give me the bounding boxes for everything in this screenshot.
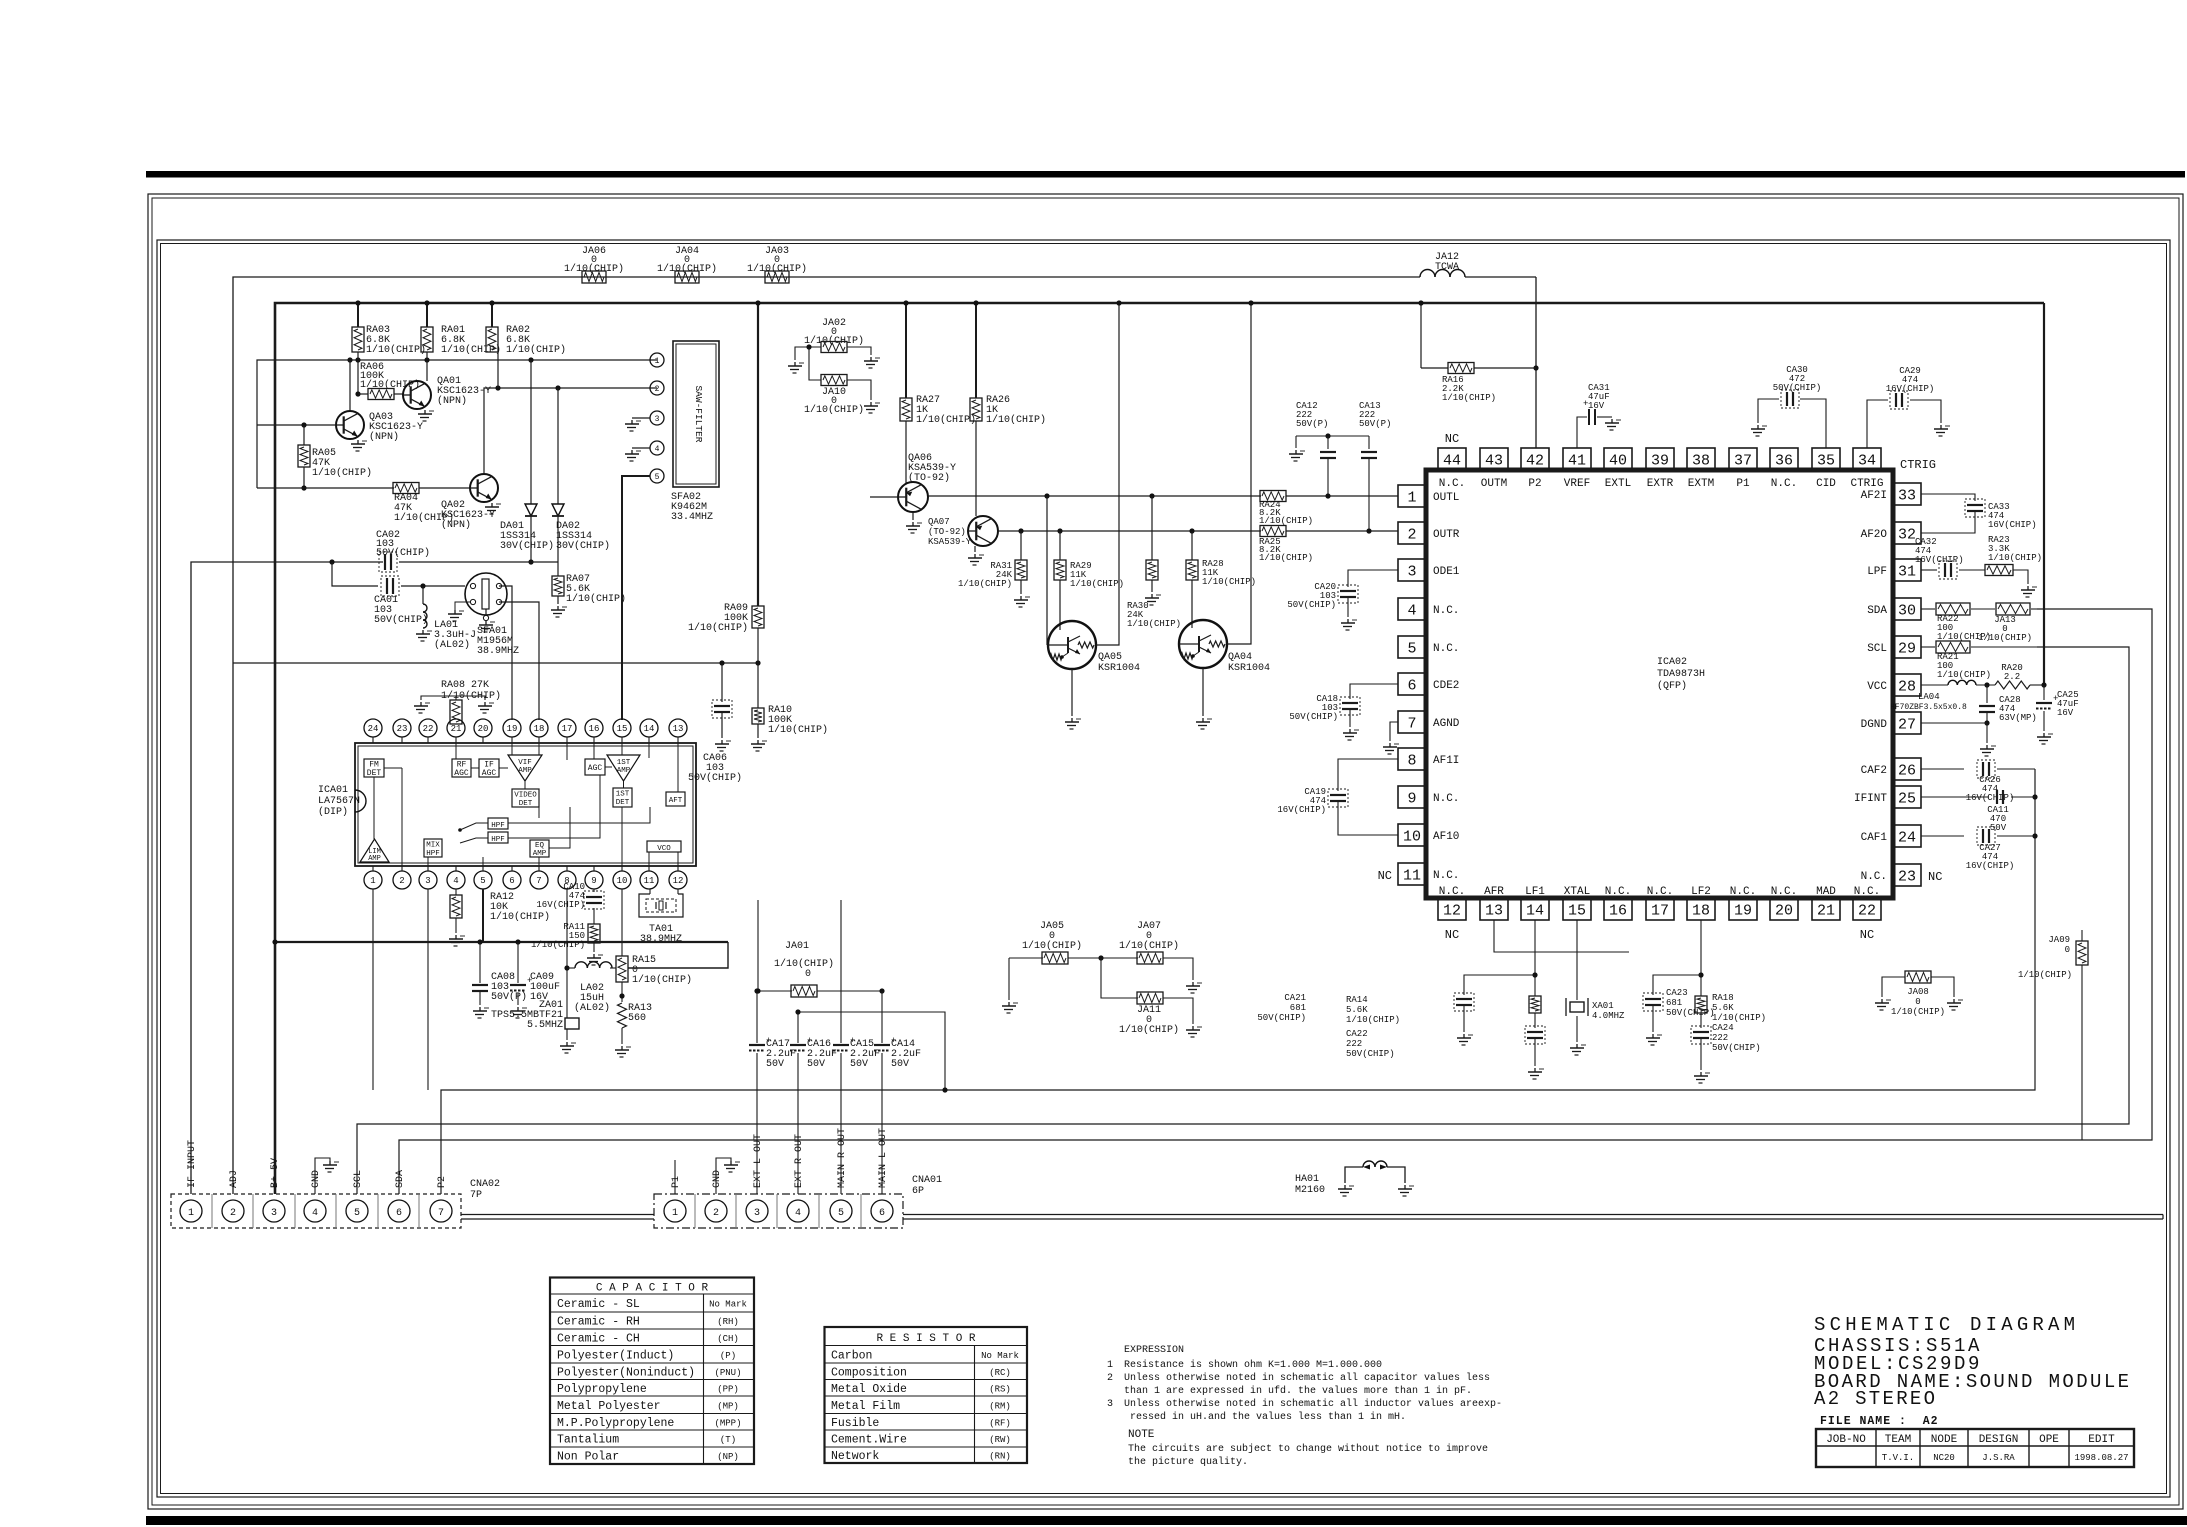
wire SFA01 to pin18 bbox=[499, 602, 539, 720]
page top rule bar bbox=[146, 171, 2185, 178]
svg-text:3: 3 bbox=[425, 876, 430, 886]
wire ICA01 pin5 to B+ return bbox=[482, 889, 484, 942]
svg-text:FILE NAME : A2: FILE NAME : A2 bbox=[1820, 1415, 1939, 1428]
svg-text:50V: 50V bbox=[766, 1059, 784, 1070]
ICA02 pin 24 CAF1 bbox=[1893, 825, 1921, 847]
svg-text:Metal Polyester: Metal Polyester bbox=[557, 1400, 661, 1413]
svg-text:1/10(CHIP): 1/10(CHIP) bbox=[506, 344, 566, 356]
svg-text:4: 4 bbox=[453, 876, 458, 886]
svg-text:the picture quality.: the picture quality. bbox=[1128, 1456, 1248, 1468]
ICA02 pin 3 ODE1 bbox=[1398, 559, 1426, 581]
wire SDA run bbox=[399, 609, 2152, 1194]
svg-text:R E S I S T O R: R E S I S T O R bbox=[876, 1333, 975, 1345]
svg-text:50V: 50V bbox=[1990, 823, 2007, 833]
resistor RA24 bbox=[1260, 491, 1286, 502]
svg-text:KSR1004: KSR1004 bbox=[1228, 663, 1270, 674]
svg-text:5: 5 bbox=[838, 1208, 844, 1219]
svg-text:EXPRESSION: EXPRESSION bbox=[1124, 1345, 1184, 1356]
ICA02 pin 13 AFR bbox=[1480, 898, 1508, 920]
ICA02 pin 34 CTRIG bbox=[1853, 448, 1881, 470]
capacitor CA15 bbox=[840, 900, 842, 1043]
ground QA01 emitter bbox=[424, 410, 426, 414]
svg-text:VIDEO: VIDEO bbox=[514, 792, 537, 800]
svg-text:681: 681 bbox=[1290, 1003, 1306, 1013]
svg-text:16V(CHIP): 16V(CHIP) bbox=[1886, 384, 1935, 394]
svg-text:No Mark: No Mark bbox=[981, 1351, 1019, 1361]
wire SFA01 to pin19 bbox=[499, 586, 512, 720]
svg-text:EDIT: EDIT bbox=[2088, 1434, 2115, 1446]
svg-text:29: 29 bbox=[1898, 640, 1916, 657]
svg-text:JA08: JA08 bbox=[1907, 987, 1929, 997]
svg-text:SCL: SCL bbox=[353, 1170, 364, 1188]
svg-text:AMP: AMP bbox=[518, 767, 532, 775]
svg-text:10: 10 bbox=[1403, 828, 1421, 845]
svg-text:LA7567N: LA7567N bbox=[318, 796, 360, 807]
wire B+ bus y=303 bbox=[275, 303, 2044, 1194]
wire inter-connector pair bbox=[461, 1214, 654, 1216]
svg-text:ressed in uH.and the values le: ressed in uH.and the values less than 1 … bbox=[1130, 1411, 1406, 1423]
svg-text:(NPN): (NPN) bbox=[441, 519, 471, 531]
svg-text:CTRIG: CTRIG bbox=[1900, 458, 1936, 472]
svg-text:1/10(CHIP): 1/10(CHIP) bbox=[1070, 579, 1124, 589]
svg-text:(PNU): (PNU) bbox=[714, 1368, 741, 1378]
ICA02 pin 21 MAD bbox=[1812, 898, 1840, 920]
svg-text:50V(CHIP): 50V(CHIP) bbox=[1773, 383, 1822, 393]
svg-text:JA09: JA09 bbox=[2048, 935, 2070, 945]
svg-text:NC: NC bbox=[1378, 869, 1392, 883]
svg-text:6: 6 bbox=[509, 876, 514, 886]
transistor QA01 bbox=[426, 352, 428, 381]
svg-text:1/10(CHIP): 1/10(CHIP) bbox=[747, 263, 807, 275]
wire CA16 feed bbox=[798, 1012, 945, 1090]
svg-text:5: 5 bbox=[1407, 640, 1416, 657]
connector CNA02 7P bbox=[171, 1194, 461, 1228]
svg-text:Composition: Composition bbox=[831, 1366, 907, 1379]
svg-text:1/10(CHIP): 1/10(CHIP) bbox=[1442, 393, 1496, 403]
svg-text:Network: Network bbox=[831, 1450, 879, 1463]
svg-text:4: 4 bbox=[795, 1208, 801, 1219]
svg-text:50V(CHIP): 50V(CHIP) bbox=[1287, 600, 1336, 610]
IC ICA01 LA7567N body bbox=[355, 743, 696, 866]
ground QA02 emitter bbox=[491, 503, 493, 507]
svg-text:33.4MHZ: 33.4MHZ bbox=[671, 512, 713, 523]
svg-text:AGC: AGC bbox=[454, 769, 469, 778]
ICA01 pin 20 bbox=[474, 719, 492, 737]
svg-text:3: 3 bbox=[1107, 1399, 1113, 1410]
svg-text:HPF: HPF bbox=[491, 836, 505, 844]
svg-text:CDE2: CDE2 bbox=[1433, 680, 1459, 692]
svg-text:TEAM: TEAM bbox=[1885, 1434, 1911, 1446]
wire top net y=277 bbox=[233, 277, 1420, 663]
svg-text:27: 27 bbox=[1898, 716, 1916, 733]
svg-text:Polyester(Induct): Polyester(Induct) bbox=[557, 1349, 674, 1362]
resistor RA27 bbox=[905, 303, 907, 398]
jumper JA03 bbox=[765, 271, 789, 283]
ICA02 pin 19 N.C. bbox=[1729, 898, 1757, 920]
ICA02 pin 17 N.C. bbox=[1646, 898, 1674, 920]
svg-text:LPF: LPF bbox=[1867, 566, 1887, 578]
ICA02 pin 16 N.C. bbox=[1604, 898, 1632, 920]
svg-text:AFR: AFR bbox=[1484, 886, 1504, 898]
svg-text:5: 5 bbox=[480, 876, 485, 886]
svg-text:DESIGN: DESIGN bbox=[1979, 1434, 2019, 1446]
transistor QA07 bbox=[975, 421, 977, 516]
svg-text:Metal Oxide: Metal Oxide bbox=[831, 1383, 907, 1396]
CNA01 pin 1 P1 bbox=[664, 1200, 686, 1222]
ICA01 pin 9 bbox=[585, 871, 603, 889]
capacitor CA19 pins 8-10 bbox=[1338, 759, 1398, 791]
svg-text:M2160: M2160 bbox=[1295, 1185, 1325, 1196]
svg-text:50V(CHIP): 50V(CHIP) bbox=[1666, 1008, 1715, 1018]
svg-text:38: 38 bbox=[1692, 452, 1710, 469]
svg-text:MAIN L OUT: MAIN L OUT bbox=[878, 1128, 889, 1188]
svg-text:6: 6 bbox=[396, 1208, 402, 1219]
svg-text:AGC: AGC bbox=[482, 769, 497, 778]
svg-text:50V(CHIP): 50V(CHIP) bbox=[1257, 1013, 1306, 1023]
svg-text:N.C.: N.C. bbox=[1861, 871, 1887, 883]
svg-text:2.2: 2.2 bbox=[2004, 672, 2020, 682]
capacitor CA29 bbox=[1867, 400, 1888, 448]
svg-text:NODE: NODE bbox=[1931, 1434, 1958, 1446]
svg-text:P1: P1 bbox=[671, 1176, 682, 1188]
svg-text:N.C.: N.C. bbox=[1433, 870, 1459, 882]
ICA02 pin 31 LPF bbox=[1893, 559, 1921, 581]
capacitor CA08 bbox=[479, 942, 481, 983]
wire y=663 to RA09/RA10 node bbox=[233, 662, 758, 664]
wire IF input bbox=[191, 562, 383, 1194]
svg-text:AF10: AF10 bbox=[1433, 831, 1459, 843]
svg-text:CTRIG: CTRIG bbox=[1850, 478, 1883, 490]
capacitor CA21 bbox=[1464, 975, 1535, 995]
svg-text:50V(P): 50V(P) bbox=[1359, 419, 1391, 429]
CNA01 pin 3 EXT L OUT bbox=[746, 1200, 768, 1222]
ICA01 pin 16 bbox=[585, 719, 603, 737]
CNA02 pin 4 GND bbox=[304, 1200, 326, 1222]
svg-text:21: 21 bbox=[1817, 902, 1835, 919]
capacitor CA23 bbox=[1653, 975, 1701, 995]
svg-text:30V(CHIP): 30V(CHIP) bbox=[500, 540, 554, 552]
svg-text:Fusible: Fusible bbox=[831, 1417, 879, 1430]
wire RA15 to B+ return corner bbox=[628, 942, 728, 968]
svg-text:1: 1 bbox=[655, 357, 660, 366]
svg-text:39: 39 bbox=[1651, 452, 1669, 469]
svg-text:VIF: VIF bbox=[518, 759, 532, 767]
capacitor CA30 bbox=[1800, 399, 1826, 448]
transistor QA04 KSR1004 bbox=[1179, 620, 1227, 668]
ICA02 pin 42 P2 bbox=[1521, 448, 1549, 470]
svg-text:13: 13 bbox=[673, 724, 684, 734]
svg-text:7: 7 bbox=[536, 876, 541, 886]
jumper JA04 bbox=[675, 271, 699, 283]
capacitor CA11 (IFINT) bbox=[1921, 796, 1989, 798]
svg-text:1/10(CHIP): 1/10(CHIP) bbox=[1978, 633, 2032, 643]
svg-text:2: 2 bbox=[713, 1208, 719, 1219]
svg-text:36: 36 bbox=[1775, 452, 1793, 469]
svg-text:AMP: AMP bbox=[368, 855, 381, 863]
connector CNA01 6P bbox=[654, 1194, 903, 1228]
svg-text:42: 42 bbox=[1526, 452, 1544, 469]
ICA01 pin 3 bbox=[419, 871, 437, 889]
svg-text:(NP): (NP) bbox=[717, 1452, 739, 1462]
capacitor CA16 bbox=[797, 1012, 799, 1043]
capacitor CA10 bbox=[593, 889, 595, 892]
svg-text:560: 560 bbox=[628, 1013, 646, 1024]
wire ICA01 pin1 drop bbox=[372, 889, 374, 1090]
resistor RA09 bbox=[757, 303, 759, 606]
ICA01 internal blocks bbox=[364, 759, 384, 777]
svg-text:(MP): (MP) bbox=[717, 1401, 739, 1411]
capacitor CA28 bbox=[1986, 685, 1988, 703]
capacitor CA20 bbox=[1348, 570, 1398, 587]
capacitor CA18 bbox=[1350, 684, 1398, 699]
ICA01 internal wiring bbox=[373, 777, 375, 839]
svg-text:P2: P2 bbox=[437, 1176, 448, 1188]
resistor RA01 bbox=[426, 303, 428, 327]
svg-text:T.V.I.: T.V.I. bbox=[1882, 1453, 1914, 1463]
svg-text:1/10(CHIP): 1/10(CHIP) bbox=[1202, 577, 1256, 587]
ICA02 pin 28 VCC bbox=[1893, 674, 1921, 696]
svg-text:1/10(CHIP): 1/10(CHIP) bbox=[564, 263, 624, 275]
CNA02 pin 7 P2 bbox=[430, 1200, 452, 1222]
svg-text:N.C.: N.C. bbox=[1854, 886, 1880, 898]
wire QA03 base bbox=[257, 424, 336, 426]
svg-text:4.0MHZ: 4.0MHZ bbox=[1592, 1011, 1625, 1021]
svg-text:23: 23 bbox=[397, 724, 408, 734]
svg-text:(RW): (RW) bbox=[989, 1435, 1011, 1445]
svg-text:No Mark: No Mark bbox=[709, 1300, 747, 1310]
svg-text:N.C.: N.C. bbox=[1439, 478, 1465, 490]
svg-text:10: 10 bbox=[617, 876, 628, 886]
resistor RA13 bbox=[618, 1003, 627, 1028]
svg-text:20: 20 bbox=[478, 724, 489, 734]
svg-text:23: 23 bbox=[1898, 868, 1916, 885]
wire DGND pin27 bbox=[1921, 723, 1987, 743]
resistor RA29 bbox=[1059, 531, 1061, 560]
wire base feed y=488 bbox=[257, 487, 394, 489]
svg-text:1: 1 bbox=[672, 1208, 678, 1219]
svg-text:24: 24 bbox=[1898, 829, 1916, 846]
svg-text:5.6K: 5.6K bbox=[1712, 1003, 1734, 1013]
svg-text:AF2O: AF2O bbox=[1861, 529, 1888, 541]
svg-text:4: 4 bbox=[655, 445, 660, 454]
svg-text:22: 22 bbox=[423, 724, 434, 734]
ICA02 pin 43 OUTM bbox=[1480, 448, 1508, 470]
svg-text:50V: 50V bbox=[891, 1059, 909, 1070]
svg-text:EXT L OUT: EXT L OUT bbox=[753, 1134, 764, 1188]
svg-text:AGC: AGC bbox=[588, 764, 603, 773]
svg-text:(RH): (RH) bbox=[717, 1317, 739, 1327]
svg-text:16V(CHIP): 16V(CHIP) bbox=[1988, 520, 2037, 530]
svg-text:38.9MHZ: 38.9MHZ bbox=[477, 646, 519, 657]
svg-text:NC: NC bbox=[1445, 928, 1459, 942]
svg-text:GND: GND bbox=[712, 1170, 723, 1188]
svg-text:CA24: CA24 bbox=[1712, 1023, 1734, 1033]
svg-text:(RN): (RN) bbox=[989, 1452, 1011, 1462]
ICA02 pin 26 CAF2 bbox=[1893, 758, 1921, 780]
svg-text:AMP: AMP bbox=[533, 850, 547, 858]
svg-text:1/10(CHIP): 1/10(CHIP) bbox=[1937, 670, 1991, 680]
svg-text:ICA02: ICA02 bbox=[1657, 657, 1687, 668]
ICA02 pin 41 VREF bbox=[1563, 448, 1591, 470]
svg-text:30: 30 bbox=[1898, 602, 1916, 619]
ground SFA01 shield bbox=[455, 602, 470, 610]
svg-text:NC: NC bbox=[1928, 870, 1942, 884]
ICA01 pin 12 bbox=[669, 871, 687, 889]
capacitor CA22 bbox=[1534, 1013, 1536, 1028]
svg-text:37: 37 bbox=[1734, 452, 1752, 469]
svg-text:1/10(CHIP): 1/10(CHIP) bbox=[2018, 970, 2072, 980]
svg-text:N.C.: N.C. bbox=[1647, 886, 1673, 898]
svg-text:50V(CHIP): 50V(CHIP) bbox=[374, 614, 428, 626]
ICA02 pin 4 N.C. bbox=[1398, 598, 1426, 620]
ICA02 pin 33 AF2I bbox=[1893, 483, 1921, 505]
svg-text:1/10(CHIP): 1/10(CHIP) bbox=[916, 414, 976, 426]
svg-text:MAIN R OUT: MAIN R OUT bbox=[837, 1128, 848, 1188]
svg-text:(T): (T) bbox=[720, 1435, 736, 1445]
svg-text:EQ: EQ bbox=[535, 842, 545, 850]
capacitor CA17 bbox=[756, 991, 758, 1043]
diode DA02 bbox=[557, 388, 559, 504]
svg-text:17: 17 bbox=[1651, 902, 1669, 919]
svg-text:20: 20 bbox=[1775, 902, 1793, 919]
svg-text:50V(CHIP): 50V(CHIP) bbox=[1346, 1049, 1395, 1059]
svg-text:B+ 5V: B+ 5V bbox=[270, 1158, 281, 1188]
svg-text:28: 28 bbox=[1898, 678, 1916, 695]
svg-text:N.C.: N.C. bbox=[1771, 886, 1797, 898]
svg-text:SDA: SDA bbox=[395, 1170, 406, 1188]
svg-text:LF2: LF2 bbox=[1691, 886, 1711, 898]
svg-text:6: 6 bbox=[1407, 677, 1416, 694]
ground QA04 bbox=[1202, 668, 1204, 716]
svg-text:1998.08.27: 1998.08.27 bbox=[2074, 1453, 2128, 1463]
ICA01 pin 19 bbox=[503, 719, 521, 737]
svg-text:N.C.: N.C. bbox=[1439, 886, 1465, 898]
svg-text:NOTE: NOTE bbox=[1128, 1429, 1155, 1441]
capacitor CA26 (CAF2) bbox=[1921, 768, 1964, 770]
svg-text:EXTL: EXTL bbox=[1605, 478, 1631, 490]
svg-text:1/10(CHIP): 1/10(CHIP) bbox=[1988, 553, 2042, 563]
ICA02 pin 37 P1 bbox=[1729, 448, 1757, 470]
wire RA03 to RA06 node bbox=[357, 352, 359, 394]
svg-text:NC: NC bbox=[1860, 928, 1874, 942]
svg-text:25: 25 bbox=[1898, 790, 1916, 807]
filter SFA01 bbox=[465, 573, 507, 615]
ground QA03 emitter bbox=[357, 440, 359, 444]
resistor RA30 bbox=[1151, 496, 1153, 560]
wire pin10 drop bbox=[621, 889, 623, 956]
IC ICA02 TDA9873H body bbox=[1426, 470, 1893, 898]
svg-text:12: 12 bbox=[1443, 902, 1461, 919]
resistor RA11 bbox=[593, 908, 595, 924]
svg-text:Tantalium: Tantalium bbox=[557, 1434, 619, 1447]
svg-text:50V(P): 50V(P) bbox=[1296, 419, 1328, 429]
svg-text:J.S.RA: J.S.RA bbox=[1982, 1453, 2015, 1463]
svg-text:1: 1 bbox=[1407, 489, 1416, 506]
ICA02 pin 5 N.C. bbox=[1398, 636, 1426, 658]
svg-text:KSA539-Y: KSA539-Y bbox=[928, 537, 972, 547]
svg-text:AF1I: AF1I bbox=[1433, 755, 1459, 767]
ICA01 pin 13 bbox=[669, 719, 687, 737]
svg-text:HF70ZBF3.5x5x0.8: HF70ZBF3.5x5x0.8 bbox=[1890, 703, 1967, 712]
CNA01 pin 6 MAIN L OUT bbox=[871, 1200, 893, 1222]
svg-text:VCO: VCO bbox=[657, 845, 671, 853]
svg-text:SCHEMATIC DIAGRAM: SCHEMATIC DIAGRAM bbox=[1814, 1314, 2079, 1336]
svg-text:N.C.: N.C. bbox=[1433, 605, 1459, 617]
svg-text:EXT R OUT: EXT R OUT bbox=[794, 1134, 805, 1188]
svg-text:XA01: XA01 bbox=[1592, 1001, 1614, 1011]
svg-text:TCWA: TCWA bbox=[1435, 262, 1459, 273]
svg-text:16V: 16V bbox=[2057, 708, 2074, 718]
svg-text:1/10(CHIP): 1/10(CHIP) bbox=[688, 622, 748, 634]
resistor marking table bbox=[825, 1327, 1028, 1463]
resistor RA25 bbox=[1260, 526, 1286, 537]
resistor RA10 bbox=[757, 663, 759, 708]
wire SCL run bbox=[357, 647, 2129, 1194]
ICA02 pin 15 XTAL bbox=[1563, 898, 1591, 920]
svg-text:CA21: CA21 bbox=[1284, 993, 1306, 1003]
ICA02 pin 23 N.C. bbox=[1893, 864, 1921, 886]
svg-text:1/10(CHIP): 1/10(CHIP) bbox=[1119, 1024, 1179, 1036]
svg-text:21: 21 bbox=[451, 724, 462, 734]
svg-text:2: 2 bbox=[655, 385, 660, 394]
svg-text:16V(CHIP): 16V(CHIP) bbox=[1966, 793, 2015, 803]
svg-text:SCL: SCL bbox=[1867, 643, 1887, 655]
svg-text:16V(CHIP): 16V(CHIP) bbox=[1915, 555, 1964, 565]
ICA01 pin 18 bbox=[530, 719, 548, 737]
svg-text:SDA: SDA bbox=[1867, 605, 1887, 617]
svg-text:LF1: LF1 bbox=[1525, 886, 1545, 898]
svg-text:1/10(CHIP): 1/10(CHIP) bbox=[312, 467, 372, 479]
wire SFA02 pin5 to ICA01 pin15 bbox=[622, 476, 650, 720]
svg-text:(PP): (PP) bbox=[717, 1384, 739, 1394]
svg-text:Carbon: Carbon bbox=[831, 1349, 872, 1362]
svg-text:CAF1: CAF1 bbox=[1861, 832, 1888, 844]
svg-text:QA04: QA04 bbox=[1228, 652, 1252, 663]
svg-text:18: 18 bbox=[1692, 902, 1710, 919]
svg-text:1/10(CHIP): 1/10(CHIP) bbox=[566, 593, 626, 605]
diode DA01 bbox=[530, 360, 532, 504]
ICA02 pin 39 EXTR bbox=[1646, 448, 1674, 470]
ICA02 pin 1 OUTL bbox=[1398, 485, 1426, 507]
ICA02 pin 11 N.C. bbox=[1398, 863, 1426, 885]
CNA01 pin 4 EXT R OUT bbox=[787, 1200, 809, 1222]
ceramic resonator ZA01 bbox=[565, 1018, 579, 1029]
svg-text:1/10(CHIP): 1/10(CHIP) bbox=[366, 344, 426, 356]
svg-text:11: 11 bbox=[1403, 867, 1421, 884]
ICA02 pin 22 N.C. bbox=[1853, 898, 1881, 920]
svg-text:33: 33 bbox=[1898, 487, 1916, 504]
svg-text:1: 1 bbox=[370, 876, 375, 886]
wire pin18 LF2 / resistor RA18 bbox=[1700, 920, 1702, 996]
svg-text:5: 5 bbox=[655, 473, 660, 482]
svg-text:JOB-NO: JOB-NO bbox=[1826, 1434, 1866, 1446]
svg-text:2: 2 bbox=[399, 876, 404, 886]
svg-text:50V: 50V bbox=[807, 1059, 825, 1070]
svg-text:NC: NC bbox=[1445, 432, 1459, 446]
svg-text:DET: DET bbox=[367, 769, 382, 778]
ICA02 pin 36 N.C. bbox=[1770, 448, 1798, 470]
ICA02 pin 7 AGND bbox=[1398, 711, 1426, 733]
svg-text:(RM): (RM) bbox=[989, 1401, 1011, 1411]
capacitor CA01 bbox=[386, 578, 388, 594]
inductor LA02 bbox=[567, 967, 575, 969]
ICA01 pin 2 bbox=[393, 871, 411, 889]
svg-text:222: 222 bbox=[1712, 1033, 1728, 1043]
ground QA06 bbox=[912, 512, 914, 520]
svg-text:222: 222 bbox=[1346, 1039, 1362, 1049]
svg-text:MIX: MIX bbox=[426, 842, 440, 850]
svg-text:16V(CHIP): 16V(CHIP) bbox=[536, 900, 585, 910]
